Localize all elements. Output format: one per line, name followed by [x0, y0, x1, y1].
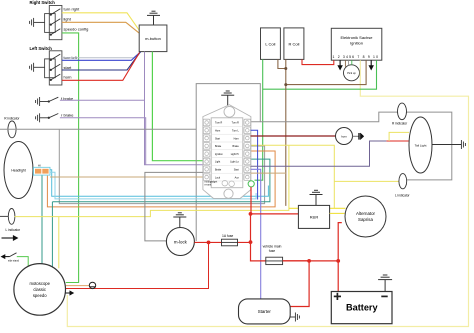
wire light orange — [62, 22, 140, 33]
svg-text:m-unit: m-unit — [205, 184, 212, 187]
side stand switch — [2, 253, 20, 262]
ground left switch — [30, 63, 45, 72]
wire grey m-lock from m-unit — [145, 172, 203, 241]
fuse 1A — [194, 239, 250, 246]
svg-text:Horn: Horn — [234, 137, 240, 140]
wire r brake purple — [60, 118, 146, 165]
svg-text:Elektronik Sachse: Elektronik Sachse — [340, 35, 373, 40]
m-unit logo circles — [222, 180, 234, 186]
bulb symbol speedo — [89, 282, 95, 288]
junction brown B — [284, 83, 287, 86]
switch blade turn right — [50, 9, 60, 16]
alternator — [345, 196, 386, 237]
wire dark stub L indicator — [0, 215, 9, 217]
ground arrow pin 9 — [369, 60, 373, 69]
m-button U1 — [139, 25, 167, 52]
svg-text:Light: Light — [215, 161, 221, 164]
svg-text:Left Switch: Left Switch — [30, 46, 53, 51]
switch blade light — [50, 19, 60, 26]
svg-text:speedo config: speedo config — [64, 27, 89, 32]
wire brown R coil down — [285, 59, 287, 206]
svg-text:Saprisa: Saprisa — [358, 217, 373, 222]
wire speedo config green — [62, 33, 79, 283]
svg-text:side stand: side stand — [8, 259, 20, 262]
wire yellow phase top behind R&R — [289, 207, 346, 209]
svg-text:motoscope: motoscope — [29, 281, 50, 286]
svg-text:R indicator: R indicator — [392, 121, 408, 125]
ground tail light — [461, 140, 465, 149]
switch blade turn left — [50, 54, 60, 61]
wire red tail segment — [386, 140, 408, 142]
svg-text:Tail Light: Tail Light — [415, 143, 427, 147]
wire red R coil to pin 1 — [302, 59, 334, 64]
svg-text:Horn: Horn — [215, 130, 221, 133]
svg-text:Brake: Brake — [215, 169, 222, 172]
svg-text:fuse: fuse — [269, 249, 276, 253]
svg-text:1 2 3456 7 8 9 10: 1 2 3456 7 8 9 10 — [333, 55, 379, 59]
svg-text:start: start — [64, 65, 73, 70]
svg-text:horn: horn — [341, 134, 347, 138]
wire green L coil down to m-unit — [255, 59, 263, 180]
svg-text:vehicle main: vehicle main — [263, 245, 282, 249]
wire green side stand — [17, 257, 28, 267]
starter — [239, 299, 291, 324]
wire yellow pin7 right edge bottom loop — [67, 60, 468, 326]
wire teal headlight to speedo — [41, 176, 43, 264]
ground right switch — [30, 18, 45, 27]
ground m-lock — [173, 213, 186, 228]
label vehicle main fuse — [263, 245, 282, 254]
L Coil — [261, 28, 281, 60]
wire turn right yellow — [62, 13, 140, 31]
wire red alternator output — [338, 223, 342, 261]
switch blade speedo config — [50, 29, 60, 36]
arrow left edge — [2, 236, 18, 240]
wire green m-button to m-unit — [152, 52, 202, 161]
svg-text:R indicator: R indicator — [4, 116, 20, 120]
svg-text:Ignition: Ignition — [350, 40, 363, 45]
left switch housing — [45, 51, 62, 85]
wire cyan2 headlight to m-unit — [50, 172, 256, 199]
wire red starter riser — [290, 261, 309, 307]
wire yellow branch rear L indicator — [334, 180, 399, 182]
junction red A — [249, 212, 253, 216]
headlight connector — [34, 163, 51, 175]
wire red speedo riser — [66, 242, 209, 288]
svg-text:Battery: Battery — [346, 303, 379, 313]
wire brown L coil junction — [278, 59, 286, 68]
wire red m-unit power down — [251, 187, 310, 261]
wire tail to ground — [432, 144, 461, 146]
svg-text:classic: classic — [33, 287, 46, 292]
junction red starter — [307, 259, 311, 263]
R Coil — [284, 28, 304, 60]
wire brown pin8 — [286, 60, 366, 84]
wire grey branch to bundle — [59, 129, 264, 203]
wire yellow turn L net — [15, 145, 289, 216]
m-unit power terminal green — [248, 181, 254, 187]
right switch housing — [45, 6, 62, 40]
m-unit terminals right — [244, 119, 251, 180]
horn speaker icon — [353, 135, 359, 137]
svg-text:L Coil: L Coil — [265, 41, 275, 46]
svg-text:Light Hi: Light Hi — [231, 153, 240, 156]
wire red fuse to battery/starter — [283, 260, 339, 262]
wire purple bus m-button to m-unit brake in — [145, 52, 203, 165]
wire turn left grey — [62, 52, 141, 58]
ground battery — [378, 275, 392, 292]
ground arrow pin 2 — [338, 60, 342, 69]
wire teal2 to speedo — [51, 202, 53, 268]
svg-text:Headlight: Headlight — [11, 169, 25, 173]
pick up coil — [344, 60, 360, 81]
switch blade horn — [50, 74, 60, 81]
switch r brake — [48, 114, 58, 119]
wire tan m-unit to headlight — [50, 176, 203, 178]
wire purple brake to tail — [251, 141, 387, 166]
ignition box Elektronik Sachse — [331, 28, 382, 60]
svg-text:Turn L: Turn L — [232, 130, 239, 133]
wire orange speedo to bulb — [66, 285, 90, 287]
switch blade start — [50, 64, 60, 71]
svg-text:R Coil: R Coil — [288, 41, 299, 46]
svg-text:light: light — [64, 17, 72, 22]
L indicator rear lamp — [399, 174, 407, 189]
svg-text:turn right: turn right — [64, 7, 81, 12]
m-unit body — [203, 105, 251, 199]
wire red to R&R — [251, 213, 299, 215]
ground f brake — [36, 97, 49, 106]
ground starter — [290, 313, 299, 322]
wire violet start to starter — [251, 169, 261, 299]
svg-text:m-lock: m-lock — [174, 239, 188, 244]
wire horn red — [62, 53, 140, 81]
svg-text:HI: HI — [38, 163, 41, 167]
svg-text:L indicator: L indicator — [6, 228, 22, 232]
svg-text:Turn R: Turn R — [232, 122, 239, 125]
svg-text:Start: Start — [215, 137, 220, 140]
wire start navy — [62, 52, 140, 70]
vehicle main fuse — [266, 257, 283, 264]
wire teal bundle to m-unit — [52, 159, 270, 202]
ground r brake — [36, 113, 49, 122]
junction brown A — [284, 67, 287, 70]
svg-text:Lock: Lock — [215, 176, 221, 179]
junction red B — [249, 240, 253, 244]
tail light — [409, 117, 432, 173]
svg-text:Brake: Brake — [215, 145, 222, 148]
svg-text:Ignition: Ignition — [215, 153, 223, 156]
power symbol m-button — [147, 11, 160, 25]
wire yellow branch into speedo — [58, 217, 60, 269]
wire blue turn L out stub — [251, 130, 258, 199]
wire f brake purple — [60, 99, 145, 101]
wire yellow tail stub — [389, 132, 409, 141]
junction red m-lock riser — [207, 241, 211, 245]
svg-text:Start: Start — [234, 169, 239, 172]
wires yellow phases — [330, 212, 345, 214]
svg-text:Brake: Brake — [233, 145, 240, 148]
svg-text:speedo: speedo — [33, 293, 47, 298]
wire yellow m-unit turn L out — [251, 145, 335, 208]
speedo output arrow — [65, 291, 73, 295]
svg-text:r brake: r brake — [61, 112, 74, 117]
m-unit terminals left — [203, 119, 210, 180]
wire grey R indicator to m-unit loop — [0, 84, 452, 241]
wire dark red horn out — [251, 135, 336, 137]
wire turn left blue — [62, 52, 141, 61]
R&R regulator — [298, 205, 329, 228]
wire red battery riser — [337, 261, 339, 292]
m-unit row labels — [205, 122, 243, 187]
ground R&R — [310, 190, 323, 205]
wire cyan1 headlight to m-unit — [50, 170, 268, 197]
R indicator front lamp — [8, 121, 16, 138]
svg-text:Right Switch: Right Switch — [30, 0, 56, 5]
svg-text:Starter: Starter — [258, 309, 272, 314]
svg-text:Light Lo: Light Lo — [230, 161, 239, 164]
headlight — [4, 142, 33, 199]
L indicator front lamp — [8, 209, 15, 225]
svg-text:L indicator: L indicator — [395, 194, 411, 198]
wire orange headlight to m-unit — [47, 151, 275, 207]
wire green pin10 to coil — [263, 60, 377, 89]
wire tan m-unit right to coils brown — [251, 172, 286, 174]
speedo motoscope — [14, 264, 66, 316]
svg-text:Pick up: Pick up — [347, 71, 356, 75]
svg-text:R&R: R&R — [310, 215, 319, 220]
horn — [336, 128, 353, 145]
switch f brake — [48, 97, 58, 102]
junction red battery — [336, 259, 340, 263]
svg-text:1A fuse: 1A fuse — [222, 234, 233, 238]
m-lock — [166, 228, 194, 256]
svg-text:horn: horn — [64, 75, 72, 80]
svg-text:Turn R: Turn R — [215, 122, 222, 125]
power symbol m-unit — [221, 91, 234, 107]
battery — [331, 292, 392, 324]
R indicator rear lamp — [398, 103, 407, 120]
svg-text:m-button: m-button — [145, 36, 161, 41]
svg-text:Alternator: Alternator — [356, 211, 376, 216]
